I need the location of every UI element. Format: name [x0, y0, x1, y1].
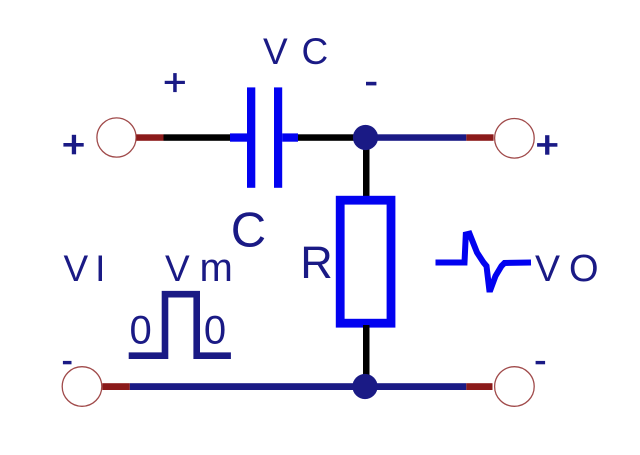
wire navy top-right	[366, 134, 467, 141]
wire black top-left	[164, 134, 231, 141]
terminal T4 bottom-right	[495, 367, 535, 407]
polarity plus terminal T1	[63, 135, 83, 155]
label Vm	[165, 246, 233, 290]
wire black vertical junction-to-resistor	[363, 138, 370, 200]
terminal T3 bottom-left	[62, 367, 102, 407]
wire black cap-to-junction	[298, 134, 368, 141]
svg-text:V: V	[165, 248, 190, 289]
svg-text:I: I	[95, 248, 105, 289]
label VO	[535, 247, 599, 290]
svg-text:R: R	[300, 237, 333, 288]
svg-text:0: 0	[130, 309, 152, 353]
polarity plus terminal T2	[537, 135, 557, 155]
label VI	[64, 248, 106, 289]
polarity plus capacitor	[165, 73, 185, 92]
resistor R1	[340, 200, 391, 323]
capacitor C1 lead left	[230, 133, 247, 141]
capacitor C1 plate left	[247, 87, 255, 187]
polarity minus terminal T4	[536, 361, 546, 364]
svg-text:V: V	[535, 247, 560, 289]
capacitor C1 lead right	[282, 133, 298, 141]
terminal T2 top-right	[495, 119, 535, 159]
svg-text:m: m	[200, 246, 233, 290]
wire red stub from T3	[102, 383, 129, 390]
polarity minus terminal T3	[63, 361, 72, 364]
wire navy bottom rail	[130, 383, 467, 390]
svg-text:C: C	[231, 204, 266, 258]
waveform input pulse Vm	[129, 294, 231, 356]
terminal T1 top-left	[97, 118, 136, 157]
waveform output VO	[436, 234, 532, 290]
wire black vertical resistor-to-junction	[363, 325, 370, 387]
node junction top	[353, 125, 378, 150]
svg-text:V: V	[64, 248, 89, 289]
label VC	[263, 31, 328, 72]
wire red stub to T4	[466, 383, 492, 390]
node junction bottom	[352, 374, 377, 399]
svg-text:V: V	[263, 31, 288, 72]
wire red stub from T1	[136, 134, 163, 141]
svg-text:O: O	[569, 248, 599, 290]
wire red stub to T2	[466, 134, 493, 141]
polarity minus capacitor	[366, 82, 376, 86]
capacitor C1 plate right	[274, 87, 282, 187]
svg-text:0: 0	[204, 309, 226, 353]
svg-text:C: C	[302, 31, 329, 72]
